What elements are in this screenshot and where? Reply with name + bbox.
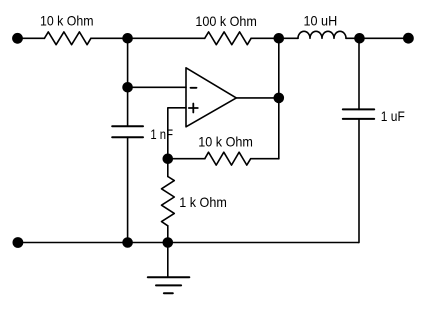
bottom rail wire (18, 242, 359, 244)
wire feedback right segment (251, 158, 279, 160)
svg-text:100 k Ohm: 100 k Ohm (195, 13, 257, 29)
ground (148, 243, 190, 294)
wire J3 down to C2 (358, 38, 360, 109)
node junction J8 (163, 237, 174, 248)
op-amp plus sign (189, 104, 198, 113)
wire J2 down through J5 to feedback (278, 38, 280, 159)
svg-text:1 uF: 1 uF (381, 108, 405, 124)
label C2 value 1 uF (381, 108, 405, 124)
op-amp minus sign (191, 87, 197, 89)
op-amp U1 (186, 68, 236, 127)
wire C1 to bottom rail (127, 137, 129, 242)
input terminal node (12, 33, 23, 44)
label L1 value 10 uH (304, 12, 338, 28)
inductor L1 (298, 31, 346, 38)
svg-text:10 uH: 10 uH (304, 12, 338, 28)
label R1 value 10 k Ohm (40, 13, 94, 29)
wire R1 to R2 (91, 37, 205, 39)
resistor R4 (162, 177, 175, 226)
resistor R2 (205, 32, 251, 45)
resistor R3 feedback (205, 152, 251, 165)
wire plus input (168, 108, 186, 159)
wire L1 to output (346, 37, 408, 39)
svg-text:10 k Ohm: 10 k Ohm (198, 133, 253, 149)
node junction J1 (122, 33, 133, 44)
wire C2 to bottom rail (358, 119, 361, 243)
capacitor C2 (343, 109, 374, 119)
wire R2 to L1 (251, 37, 298, 39)
node junction J4 (122, 82, 133, 93)
wire op-amp output to J5 (236, 97, 278, 99)
wire J6 down to R4 (167, 159, 169, 177)
node junction J2 (274, 33, 285, 44)
capacitor C1 (112, 126, 143, 137)
label R2 value 100 k Ohm (195, 13, 257, 29)
output terminal node (403, 33, 414, 44)
resistor R1 (44, 32, 91, 45)
svg-text:1 k Ohm: 1 k Ohm (179, 194, 227, 210)
wire input to R1 (18, 37, 45, 39)
node junction J6 (163, 154, 174, 165)
wire R3 to J6 (168, 158, 205, 160)
node junction J7 (122, 237, 133, 248)
node junction J3 (354, 33, 365, 44)
wire J1 down to C1 (127, 38, 129, 126)
svg-text:1 nF: 1 nF (150, 126, 173, 142)
svg-text:10 k Ohm: 10 k Ohm (40, 13, 94, 29)
label C1 value 1 nF (150, 126, 173, 142)
wire R4 to bottom rail (167, 226, 169, 243)
label R4 value 1 k Ohm (179, 194, 227, 210)
wire J4 to op-amp inverting input (128, 86, 186, 88)
node junction J5 output (274, 93, 285, 104)
bottom left terminal node (13, 237, 24, 248)
label R3 value 10 k Ohm (198, 133, 253, 149)
